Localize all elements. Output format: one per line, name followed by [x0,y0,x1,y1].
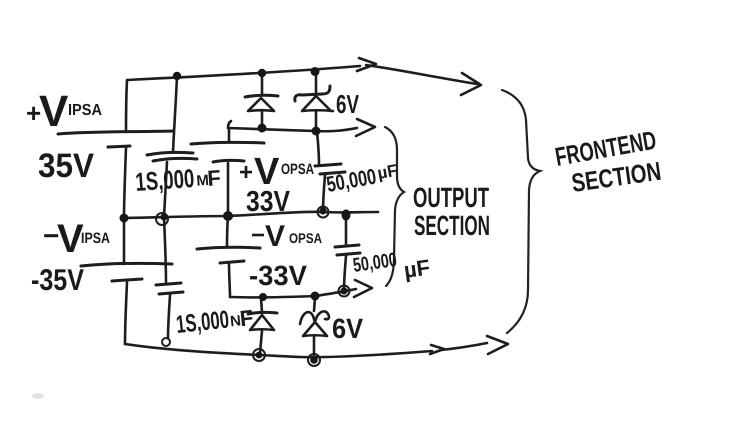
diode D3 [248,298,277,353]
svg-text:−: − [251,222,265,249]
wire -33V output rail [230,289,356,297]
svg-text:-33V: -33V [249,260,307,291]
label +VOPSA [239,151,314,193]
wire mid rail to battery B4 [227,216,228,247]
wire bottom rail [125,344,432,357]
wire capacitor C1 to mid rail [164,162,167,217]
wire battery B4 to -33V rail [229,264,230,297]
node open circle on bottom rail [162,338,170,346]
zener diode D4 6V [300,297,329,359]
wire bottom rail arrowhead [487,336,508,354]
wire left vertical from top rail [126,80,127,132]
svg-text:OUTPUT: OUTPUT [413,182,489,213]
svg-text:IPSA: IPSA [68,102,102,119]
svg-text:V: V [39,87,69,136]
wire -33V rail arrowhead [354,280,372,297]
wire capacitor C4 to -33V rail [344,256,346,290]
svg-text:1S,000: 1S,000 [175,306,231,339]
label C3 value 50000uF [325,160,400,197]
svg-text:50,000: 50,000 [325,164,379,197]
battery B4 -VOPSA long plate [197,247,260,249]
capacitor C2 15000uF top plate [156,283,181,285]
node top rail junction [173,72,181,80]
brace frontend section [502,90,540,333]
capacitor C4 50000uF top plate [335,245,359,247]
wire top rail arrowhead [461,73,481,95]
wire mid rail to capacitor C4 [345,215,348,245]
svg-text:+: + [239,159,253,186]
diode D1 [245,76,278,127]
node mid rail C3 [318,207,329,218]
node top rail D2 [311,67,320,76]
node +VOPSA rail C3 [312,127,321,136]
label -V IPSA [43,217,110,261]
wire +VOPSA rail arrowhead [356,119,375,136]
battery B1 +35V short plate [108,146,130,147]
node bottom rail D4 [308,354,320,366]
svg-text:-35V: -35V [31,264,84,297]
wire capacitor C2 to bottom rail [168,295,170,338]
label +V IPSA [26,87,102,136]
wire bottom rail mid chevron [430,345,444,354]
wire rail to capacitor C3 [317,131,319,164]
node +VOPSA rail D1 [258,124,267,133]
svg-text:6V: 6V [336,89,359,119]
label FRONTEND [553,125,659,172]
node bottom rail D3 [253,349,265,361]
svg-text:33V: 33V [246,186,291,218]
svg-text:V: V [57,217,84,261]
battery B2 -35V short plate [112,279,142,281]
battery B3 +VOPSA short plate [213,160,244,162]
capacitor C3 50000uF bottom plate [320,172,345,174]
battery B1 +35V long plate [58,131,173,134]
svg-text:IPSA: IPSA [81,230,110,247]
node mid rail left [120,214,129,223]
node mid rail B3 [223,211,233,221]
node mid rail C4 [342,210,351,221]
svg-text:SECTION: SECTION [414,210,490,241]
battery B3 +VOPSA long plate [191,142,264,144]
svg-text:6V: 6V [332,313,363,344]
node -33V rail D4 [311,292,320,301]
zener diode D2 6V [295,75,333,130]
capacitor C4 50000uF bottom plate [337,253,360,255]
svg-text:µF: µF [402,255,431,283]
label C2 value 15000uF [175,303,255,339]
capacitor C3 50000uF top plate [315,164,341,166]
wire mid rail to capacitor C2 [164,218,166,283]
svg-text:OPSA: OPSA [281,161,314,178]
node mid rail C1 [156,213,168,225]
svg-text:V: V [265,220,285,253]
svg-text:50,000: 50,000 [352,249,399,277]
node -33V rail C4 [339,286,350,297]
svg-text:OPSA: OPSA [289,230,322,246]
brace output section [385,127,404,286]
smudge mark [32,393,44,399]
wire top rail mid chevron [357,58,376,71]
wire battery B3 to mid rail [227,163,230,216]
battery B2 -35V long plate [81,263,172,266]
capacitor C2 15000uF bottom plate [159,292,183,294]
wire battery B1 to mid rail [124,148,126,218]
svg-text:1S,000: 1S,000 [134,163,195,197]
wire +VOPSA output rail [228,121,357,131]
wire mid rail [124,212,378,218]
label -VOPSA [251,220,322,253]
label SECTION frontend [570,156,663,198]
wire rail to battery B3 [228,128,231,142]
svg-text:F: F [239,305,255,331]
battery B4 -VOPSA short plate [220,261,244,263]
capacitor C1 15000uF top plate [147,152,193,155]
wire top rail [127,66,360,80]
label C1 value 15000uF [134,161,221,197]
svg-text:35V: 35V [38,147,94,185]
wire capacitor C3 to mid rail [323,175,325,211]
wire vertical top rail to capacitor C1 [173,76,177,152]
wire mid rail to battery B2 [123,218,126,264]
svg-text:F: F [206,165,221,191]
label C4 value 50000uF [352,249,399,277]
node top rail D1 [258,69,266,77]
svg-text:µF: µF [376,161,399,183]
node -33V rail D3 [259,293,267,301]
capacitor C1 15000uF bottom plate [153,158,197,161]
wire battery B2 to bottom rail [125,282,127,344]
